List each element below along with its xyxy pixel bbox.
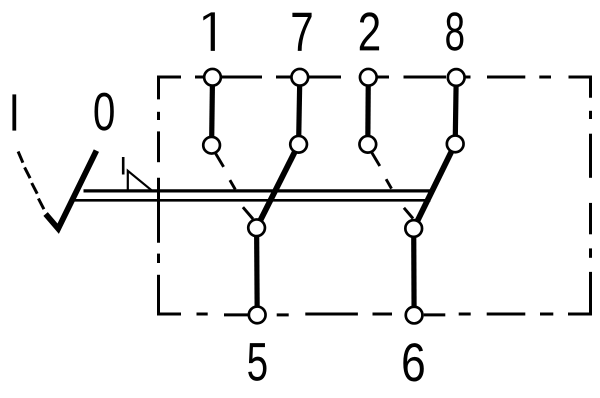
- terminal label 8: [446, 12, 463, 51]
- terminal label 1: [203, 12, 215, 50]
- terminal 1 top circle: [204, 69, 221, 86]
- position label 0: [95, 93, 114, 131]
- momentary position marker I: [122, 157, 125, 175]
- wire terminal 2 vertical: [365, 77, 371, 144]
- label position I: [12, 94, 16, 130]
- contact bridge 8 to 6 (closed): [414, 144, 456, 229]
- terminal label 6: [403, 343, 423, 381]
- wire terminal 6 vertical: [411, 229, 417, 316]
- terminal 8 top circle: [448, 69, 465, 86]
- terminal 7 top circle: [291, 69, 308, 86]
- enclosure border top edge (dash-dot): [159, 77, 591, 99]
- terminal 2 lower circle: [359, 136, 376, 153]
- switch lever alternate position I (dashed): [18, 152, 44, 210]
- terminal label 2: [360, 12, 379, 50]
- switch lever (position 0): [46, 151, 97, 229]
- actuator bar lower line: [74, 199, 431, 202]
- contact 1 dashed blade (open): [215, 153, 235, 189]
- terminal 7 lower circle: [290, 136, 307, 153]
- contact 2 dashed blade (open): [372, 152, 392, 188]
- momentary position triangle: [128, 171, 152, 191]
- contact 5 blade stub: [243, 207, 253, 219]
- terminal label 5: [248, 343, 266, 381]
- wire terminal 5 vertical: [254, 228, 260, 315]
- enclosure border left edge (dash-dot): [157, 112, 160, 295]
- wire terminal 1 vertical: [209, 77, 215, 145]
- terminal 2 top circle: [360, 69, 377, 86]
- terminal 6 bottom circle: [406, 307, 423, 324]
- terminal 6 upper circle: [405, 220, 422, 237]
- enclosure border bottom edge (dash-dot): [159, 292, 554, 315]
- terminal 8 lower circle: [447, 136, 464, 153]
- terminal 5 bottom circle: [249, 307, 266, 324]
- wire terminal 8 vertical: [455, 78, 456, 144]
- terminal 1 lower circle: [203, 137, 220, 154]
- contact 6 blade stub: [404, 208, 413, 219]
- contact bridge 7 to 5 (closed): [257, 144, 299, 228]
- enclosure border right edge (dash-dot): [568, 111, 591, 314]
- terminal label 7: [292, 13, 311, 51]
- wire terminal 7 vertical: [299, 77, 300, 144]
- terminal 5 upper circle: [248, 219, 265, 236]
- actuator bar upper line: [84, 189, 434, 192]
